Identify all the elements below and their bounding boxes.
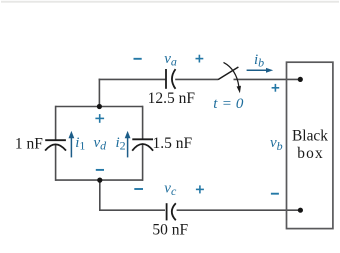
polarity plus of vb bbox=[272, 84, 280, 92]
svg-text:vd: vd bbox=[94, 135, 108, 153]
capacitor C2 1.5 nF (right edge of loop) bbox=[132, 139, 153, 150]
svg-text:=: = bbox=[222, 96, 232, 112]
polarity minus of va bbox=[134, 58, 142, 60]
wire inner loop right edge upper bbox=[142, 106, 144, 140]
svg-text:i2: i2 bbox=[116, 135, 126, 153]
current arrow ib bbox=[247, 68, 274, 73]
wire top segment switch to black box terminal bbox=[234, 78, 301, 80]
black box U1 bbox=[287, 62, 333, 228]
wire top-left vertical (top wire to node) bbox=[98, 79, 100, 107]
current arrow i2 bbox=[125, 131, 131, 158]
polarity minus of vd bbox=[96, 169, 104, 171]
wire bottom segment capacitor Cc to black box terminal bbox=[177, 209, 301, 211]
svg-text:0: 0 bbox=[236, 96, 244, 112]
svg-text:vb: vb bbox=[270, 135, 283, 153]
polarity plus of va bbox=[196, 55, 204, 63]
switch motion arc with arrowhead bbox=[224, 62, 239, 86]
wire inner loop left edge lower bbox=[55, 145, 57, 181]
svg-text:1 nF: 1 nF bbox=[15, 135, 43, 152]
current arrow i1 bbox=[69, 131, 75, 158]
wire bottom segment left of capacitor Cc bbox=[99, 209, 165, 211]
svg-text:Black: Black bbox=[292, 128, 328, 145]
wire inner loop top edge bbox=[56, 106, 143, 108]
svg-text:ib: ib bbox=[254, 52, 264, 70]
node A junction dot (top of loop) bbox=[97, 104, 102, 109]
wire inner loop right edge lower bbox=[142, 144, 144, 181]
wire top segment left of capacitor Ca bbox=[99, 78, 166, 80]
wire bottom vertical from node B bbox=[99, 180, 101, 210]
switch blade (opens/closes at t=0) bbox=[218, 67, 238, 80]
polarity plus of vd bbox=[95, 114, 104, 123]
svg-text:12.5 nF: 12.5 nF bbox=[148, 90, 196, 107]
capacitor C1 1 nF (left edge of loop) bbox=[45, 140, 66, 150]
svg-text:va: va bbox=[164, 51, 177, 69]
node B junction dot (bottom of loop) bbox=[97, 178, 102, 183]
svg-text:box: box bbox=[297, 145, 323, 162]
svg-text:1.5 nF: 1.5 nF bbox=[153, 135, 193, 152]
terminal node bottom (dot) bbox=[298, 208, 303, 213]
svg-text:50 nF: 50 nF bbox=[152, 222, 188, 239]
wire inner loop left edge upper bbox=[55, 106, 57, 141]
wire top segment capacitor Ca to switch bbox=[175, 78, 218, 80]
wire inner loop bottom edge bbox=[56, 179, 143, 181]
svg-text:vc: vc bbox=[164, 181, 177, 199]
capacitor Ca 12.5 nF (top) bbox=[166, 69, 176, 89]
capacitor Cc 50 nF (bottom) bbox=[167, 203, 176, 220]
svg-text:i1: i1 bbox=[75, 135, 85, 153]
polarity minus of vc bbox=[134, 188, 143, 190]
terminal node top (dot) bbox=[298, 77, 303, 82]
polarity minus of vb bbox=[271, 193, 279, 195]
polarity plus of vc bbox=[196, 185, 204, 193]
